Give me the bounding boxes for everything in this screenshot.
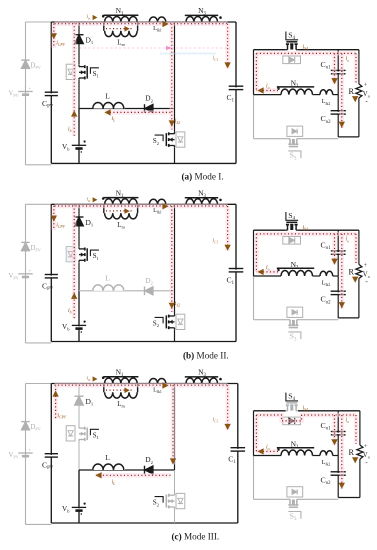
- svg-text:+: +: [364, 444, 368, 450]
- winding N3 (mode 3): [185, 376, 218, 378]
- wire middle branch (mode 1): [79, 108, 175, 110]
- current path through Co1 (mode 3): [332, 415, 336, 445]
- faint artifact line: [75, 47, 230, 49]
- battery Vb (mode 3): [77, 508, 81, 510]
- mosfet S4 (mode 1): [286, 49, 288, 51]
- PV source outer box (mode 3): [25, 384, 27, 525]
- current path output loop top (mode 2): [256, 232, 356, 236]
- current path iC1 (mode 3): [225, 385, 229, 430]
- source VPV (mode 1): [18, 91, 32, 93]
- capacitor Co2 (mode 3): [336, 473, 340, 475]
- current arrow into N1 (mode 1): [93, 15, 98, 20]
- current path output loop left (mode 3): [254, 415, 258, 451]
- current path output loop left (mode 2): [254, 234, 258, 272]
- battery Vb (mode 1): [77, 146, 81, 148]
- body diode box of S3 (mode 3): [287, 487, 303, 497]
- mosfet S1 (mode 3): [78, 426, 90, 442]
- current path through R (mode 2): [354, 234, 358, 263]
- wire junction vertical (mode 1): [174, 22, 176, 132]
- body diode box of S1 (mode 1): [66, 64, 75, 79]
- current arrow into N1 (mode 3): [93, 376, 98, 381]
- svg-text:L: L: [105, 274, 110, 283]
- wire capacitor branch (mode 3): [337, 411, 339, 498]
- capacitor Co2 (mode 1): [336, 112, 340, 114]
- svg-text:iin: iin: [87, 15, 91, 21]
- diode D1 (mode 3): [75, 396, 84, 405]
- svg-text:iin: iin: [87, 197, 91, 203]
- wire main loop (mode 3): [50, 384, 52, 524]
- diode D1 (mode 1): [75, 35, 84, 44]
- wire Vb branch (mode 3): [78, 470, 80, 523]
- current path iS2 (mode 1): [170, 24, 174, 130]
- svg-text:(b) Mode II.: (b) Mode II.: [183, 351, 229, 361]
- svg-text:(c) Mode III.: (c) Mode III.: [172, 532, 220, 542]
- wire D1-S1 branch (mode 2): [78, 204, 80, 290]
- wire Vb branch (mode 2): [78, 291, 80, 342]
- diode DPV (mode 1): [21, 60, 29, 68]
- magnetizing inductance Lm (mode 1): [103, 22, 105, 31]
- diode DPV (mode 3): [21, 422, 29, 430]
- wire main loop (mode 2): [50, 204, 52, 341]
- current path iCPV (mode 3): [53, 385, 57, 419]
- mosfet S4 (mode 3): [286, 410, 288, 412]
- leakage inductor Llk1 (mode 3): [149, 379, 166, 384]
- transformer winding N1 (mode 2): [103, 197, 138, 199]
- body diode box of S2 (mode 1): [176, 132, 185, 147]
- winding N2 (mode 2): [254, 275, 282, 277]
- current path through Co2 (mode 3): [340, 415, 344, 489]
- leakage inductor Llk2 (mode 3): [313, 455, 321, 457]
- resistor R (mode 3): [359, 411, 361, 445]
- capacitor Co1 (mode 3): [336, 433, 340, 435]
- source VPV (mode 2): [18, 273, 32, 275]
- PV source outer box (mode 2): [25, 204, 27, 343]
- leakage inductor Llk2 (mode 2): [313, 275, 321, 277]
- diode D2 (mode 2): [145, 287, 154, 296]
- leakage inductor Llk1 (mode 2): [149, 199, 166, 204]
- body diode box of S1 (mode 3): [66, 426, 75, 441]
- body diode box of S2 (mode 2): [176, 314, 185, 329]
- current path iL (mode 3): [96, 473, 171, 477]
- current path through R (mode 1): [354, 53, 358, 82]
- current path along top wire (mode 3): [55, 383, 228, 387]
- current path through Co1 (mode 1): [332, 53, 336, 84]
- current path iCPV (mode 1): [52, 24, 56, 49]
- mosfet S3 (mode 3): [288, 498, 290, 500]
- svg-text:+: +: [364, 83, 368, 89]
- mosfet S2 (mode 3): [174, 493, 176, 495]
- gray return wire with S3 (mode 3): [254, 498, 289, 500]
- wire Vb branch (mode 1): [78, 109, 80, 164]
- current path iCPV (mode 2): [52, 206, 56, 231]
- leakage inductor Llk2 (mode 1): [313, 94, 321, 96]
- capacitor CPV (mode 1): [49, 93, 53, 95]
- current arrow into N1 (mode 2): [93, 197, 98, 202]
- current path through R (mode 3): [354, 415, 358, 444]
- wire capacitor branch (mode 1): [337, 50, 339, 137]
- capacitor Co2 (mode 2): [336, 292, 340, 294]
- svg-text:iin: iin: [87, 377, 91, 383]
- wire output bottom (mode 3): [338, 497, 360, 499]
- current path along top wire (mode 1): [55, 22, 228, 26]
- magnetizing inductance Lm (mode 3): [103, 384, 105, 393]
- wire capacitor branch (mode 2): [337, 230, 339, 318]
- wire middle branch (mode 2): [79, 290, 175, 292]
- gray return wire with S3 (mode 1): [254, 138, 289, 140]
- inductor L (mode 1): [92, 100, 125, 109]
- capacitor CPV (mode 3): [49, 455, 53, 457]
- body diode box of S4 (mode 2): [283, 237, 301, 245]
- current path io along N2 (mode 1): [257, 88, 278, 92]
- winding N2 (mode 3): [254, 455, 282, 457]
- capacitor C1 (mode 3): [236, 449, 240, 451]
- current path along top wire (mode 2): [55, 204, 228, 208]
- wire main loop (mode 1): [50, 22, 52, 163]
- capacitor Co1 (mode 1): [336, 72, 340, 74]
- current path output loop top (mode 1): [256, 51, 356, 55]
- svg-text:(a) Mode I.: (a) Mode I.: [182, 171, 224, 181]
- inductor L (mode 3): [92, 461, 125, 470]
- wire junction vertical (mode 2): [174, 204, 176, 314]
- wire middle branch (mode 3): [79, 469, 175, 471]
- wire output left edge (mode 2): [253, 230, 255, 276]
- inductor L (mode 2): [92, 282, 125, 291]
- mosfet S1 (mode 2): [78, 247, 90, 262]
- current path into D2 (mode 3): [171, 385, 175, 464]
- svg-text:+: +: [29, 449, 32, 454]
- body diode box of S4 (mode 1): [283, 56, 301, 64]
- body diode box of S3 (mode 1): [287, 126, 303, 136]
- capacitor C1 (mode 2): [234, 270, 238, 272]
- current path iC1 (mode 2): [225, 206, 229, 251]
- leakage inductor Llk1 (mode 1): [149, 17, 166, 22]
- transformer winding N1 (mode 1): [103, 14, 138, 16]
- source VPV (mode 3): [18, 452, 32, 454]
- wire D1-S1 branch (mode 3): [78, 384, 80, 471]
- mosfet S4 (mode 2): [286, 229, 288, 231]
- current path through Lm (mode 1): [106, 28, 134, 30]
- body diode box of S3 (mode 2): [287, 307, 303, 317]
- wire junction vertical (mode 3): [174, 384, 176, 471]
- svg-text:R: R: [349, 448, 355, 457]
- mosfet S2 (mode 2): [174, 314, 176, 316]
- wire output left edge (mode 1): [253, 50, 255, 95]
- winding N3 (mode 2): [185, 197, 218, 199]
- wire output bottom (mode 1): [338, 136, 359, 138]
- diode D2 (mode 1): [145, 104, 154, 113]
- mosfet S3 (mode 2): [288, 319, 290, 321]
- wire output top (mode 1): [254, 49, 286, 51]
- battery Vb (mode 2): [77, 326, 81, 328]
- mosfet S2 (mode 1): [174, 132, 176, 134]
- svg-text:+: +: [29, 269, 32, 274]
- body diode box of S4 (mode 3): [283, 417, 301, 425]
- mosfet S1 (mode 1): [78, 65, 90, 81]
- current path iC1 (mode 1): [225, 24, 229, 69]
- current path through Lm (mode 2): [106, 210, 134, 212]
- mosfet S3 (mode 1): [288, 138, 290, 140]
- gray return wire with S3 (mode 2): [254, 319, 289, 321]
- winding N2 (mode 1): [254, 94, 282, 96]
- winding N3 (mode 1): [185, 14, 218, 16]
- svg-text:+: +: [29, 87, 32, 92]
- wire output bottom (mode 2): [338, 317, 359, 319]
- svg-text:L: L: [105, 91, 110, 100]
- current path ib through D1-S1 (mode 1): [72, 23, 76, 136]
- current path output loop top (mode 3): [256, 415, 356, 421]
- wire output left edge (mode 3): [253, 411, 255, 456]
- wire output top (mode 2): [254, 229, 286, 231]
- capacitor Co1 (mode 2): [336, 252, 340, 254]
- transformer winding N1 (mode 3): [103, 376, 138, 378]
- body diode box of S1 (mode 2): [66, 247, 75, 262]
- current path io along N2 (mode 3): [257, 449, 278, 453]
- current path output loop left (mode 1): [254, 53, 258, 90]
- diode D2 (mode 3): [145, 466, 154, 475]
- diode DPV (mode 2): [21, 242, 29, 250]
- wire D1-S1 branch (mode 1): [78, 22, 80, 109]
- svg-text:R: R: [349, 268, 355, 277]
- current path through Co2 (mode 2): [340, 234, 344, 308]
- resistor R (mode 1): [358, 50, 360, 84]
- current path through Lm (mode 3): [106, 389, 134, 391]
- current path iS2 (mode 2): [170, 206, 174, 312]
- svg-text:+: +: [364, 263, 368, 269]
- current path through Co1 (mode 2): [332, 234, 336, 265]
- current path ib through D1-S1 (mode 2): [72, 205, 76, 319]
- PV source outer box (mode 1): [25, 22, 27, 165]
- current path through Co2 (mode 1): [340, 53, 344, 127]
- svg-text:L: L: [105, 453, 110, 462]
- body diode box of S2 (mode 3): [176, 493, 185, 508]
- wire output top (mode 3): [254, 410, 286, 412]
- diode D1 (mode 2): [75, 217, 84, 226]
- capacitor CPV (mode 2): [49, 276, 53, 278]
- current path iL (mode 1): [105, 110, 171, 114]
- current path io along N2 (mode 2): [257, 270, 278, 274]
- capacitor C1 (mode 1): [234, 87, 238, 89]
- magnetizing inductance Lm (mode 2): [103, 204, 105, 213]
- resistor R (mode 2): [358, 230, 360, 264]
- svg-text:R: R: [349, 87, 355, 96]
